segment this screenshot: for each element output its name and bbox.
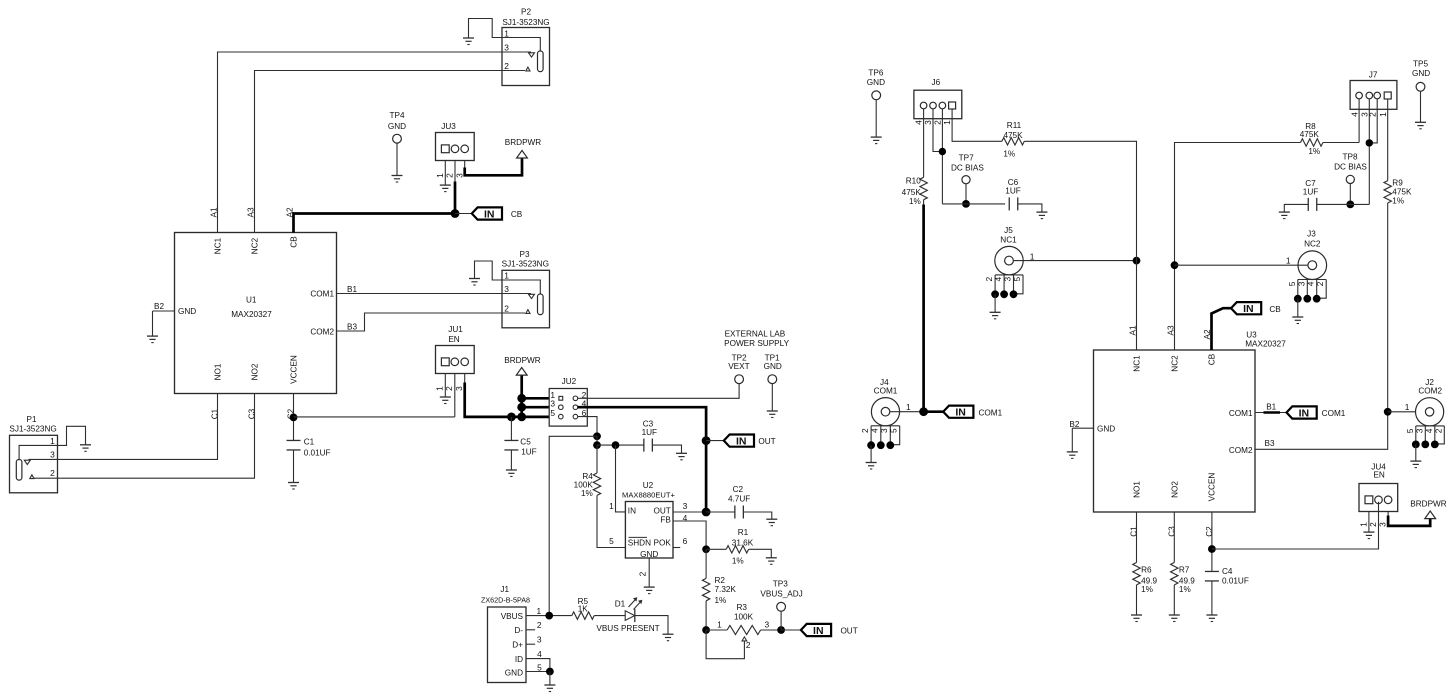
wire JU4 pin1 to ground bbox=[1368, 512, 1370, 533]
wire JU3 pin2 down (CB net) bbox=[454, 160, 456, 213]
svg-text:CB: CB bbox=[1269, 305, 1281, 314]
svg-text:100K: 100K bbox=[734, 612, 754, 621]
svg-text:C5: C5 bbox=[520, 438, 531, 447]
wire J2 node to pin1 bbox=[1388, 402, 1416, 412]
svg-text:SJ1-3523NG: SJ1-3523NG bbox=[9, 424, 56, 433]
svg-text:5: 5 bbox=[1012, 277, 1022, 282]
svg-text:B2: B2 bbox=[154, 302, 164, 311]
junction CB net bbox=[451, 209, 460, 218]
wire TP3 node to OUT flag bbox=[781, 629, 801, 631]
op-amp U1 MAX20327 analog switch box bbox=[175, 233, 337, 394]
svg-text:1%: 1% bbox=[581, 489, 593, 498]
U3 pin label A1 bbox=[1129, 325, 1138, 335]
resistor R7 49.9 bbox=[1171, 563, 1196, 594]
svg-text:3: 3 bbox=[879, 428, 889, 433]
ground at P2 bbox=[463, 38, 474, 45]
svg-text:VEXT: VEXT bbox=[728, 362, 749, 371]
ground at TP6 bbox=[871, 137, 882, 144]
wire P3 pin1 to ground bbox=[475, 261, 503, 280]
wire J3 pin1 to A3 column bbox=[1175, 255, 1308, 265]
wire U2 OUT to node bbox=[673, 511, 706, 513]
svg-text:1: 1 bbox=[435, 386, 445, 391]
svg-text:475K: 475K bbox=[902, 188, 922, 197]
wire D1 to ground bbox=[635, 616, 668, 635]
svg-text:B3: B3 bbox=[1264, 439, 1274, 448]
junction A1 J5 node bbox=[1133, 257, 1141, 265]
junction C4 node bbox=[1208, 545, 1216, 553]
svg-text:COM2: COM2 bbox=[310, 327, 334, 336]
U1 pin name NO2 bbox=[251, 363, 260, 380]
junction TP8 node bbox=[1346, 201, 1354, 209]
wire J7 pin2 to pin3 bbox=[1369, 99, 1377, 143]
ground at U3 B2 bbox=[1067, 452, 1078, 459]
U1 pin name VCCEN bbox=[290, 355, 299, 384]
connector J3 NC2 jack bbox=[1298, 230, 1327, 280]
junction R4 top bbox=[593, 441, 601, 449]
svg-text:C1: C1 bbox=[304, 437, 315, 446]
wire TP3 down bbox=[780, 611, 782, 630]
wire U1 C2 VCCEN down bbox=[293, 394, 295, 441]
P3 jack barrel bbox=[538, 294, 544, 315]
svg-text:MAX20327: MAX20327 bbox=[231, 310, 272, 319]
test point TP8 bbox=[1334, 153, 1367, 184]
U1 pin label A3 bbox=[247, 207, 256, 217]
svg-text:475K: 475K bbox=[1003, 131, 1023, 140]
connector J6 header bbox=[914, 78, 962, 119]
wire J6 pin2 col to C6 bbox=[942, 203, 1005, 205]
svg-text:C3: C3 bbox=[643, 419, 654, 428]
svg-text:IN: IN bbox=[1243, 303, 1254, 315]
P2 pin2 internal wire and contact bbox=[502, 67, 530, 71]
U3 pin name COM1 bbox=[1229, 409, 1253, 418]
wire U1 COM1 B1 to P3 pin3 bbox=[337, 293, 503, 295]
wire R7 to ground bbox=[1173, 585, 1175, 615]
svg-text:GND: GND bbox=[1412, 69, 1430, 78]
svg-text:4.7UF: 4.7UF bbox=[728, 495, 750, 504]
svg-text:3: 3 bbox=[454, 386, 464, 391]
U1 pin name GND bbox=[178, 307, 196, 316]
wire BRDPWR bus bbox=[520, 375, 523, 417]
svg-text:TP4: TP4 bbox=[389, 111, 404, 120]
svg-text:POK: POK bbox=[654, 538, 672, 547]
wire R10 down to J4 node bbox=[923, 200, 925, 412]
power symbol BRDPWR at JU3 bbox=[505, 138, 541, 158]
U3 pin name VCCEN bbox=[1208, 473, 1217, 502]
svg-text:COM1: COM1 bbox=[1322, 409, 1346, 418]
label EXTERNAL LAB POWER SUPPLY bbox=[724, 329, 789, 348]
svg-text:6: 6 bbox=[683, 536, 688, 546]
svg-text:B3: B3 bbox=[347, 323, 357, 332]
svg-text:CB: CB bbox=[511, 210, 523, 219]
svg-text:1: 1 bbox=[1405, 402, 1410, 412]
resistor R10 475K bbox=[902, 177, 928, 207]
svg-text:TP7: TP7 bbox=[959, 154, 974, 163]
svg-text:R11: R11 bbox=[1007, 121, 1022, 130]
svg-text:TP5: TP5 bbox=[1413, 60, 1428, 69]
svg-text:1UF: 1UF bbox=[642, 428, 657, 437]
J1 pin numbers bbox=[536, 606, 542, 673]
wire P1 pin1 to ground bbox=[58, 426, 86, 445]
svg-text:BRDPWR: BRDPWR bbox=[1410, 499, 1446, 508]
svg-text:2: 2 bbox=[445, 173, 455, 178]
ground at TP5 bbox=[1415, 122, 1426, 129]
capacitor C4 bbox=[1205, 567, 1249, 586]
ground at D1 bbox=[663, 634, 674, 641]
svg-text:R10: R10 bbox=[906, 177, 921, 186]
wire J4 pin1 to node bbox=[890, 402, 924, 412]
junction OUT flag tap bbox=[702, 436, 711, 445]
svg-text:1: 1 bbox=[609, 501, 614, 511]
wire CB net U1 A2 to JU3 bbox=[294, 214, 456, 233]
connector J2 COM2 jack bbox=[1416, 378, 1444, 426]
svg-text:1: 1 bbox=[1358, 522, 1368, 527]
svg-text:1: 1 bbox=[504, 271, 509, 281]
svg-text:3: 3 bbox=[1414, 428, 1424, 433]
svg-text:P3: P3 bbox=[519, 250, 529, 259]
svg-text:NC1: NC1 bbox=[1000, 236, 1017, 245]
wire U1 C3 to P1 pin2 bbox=[58, 394, 255, 479]
wire U1 COM2 B3 to P3 pin2 bbox=[337, 313, 503, 331]
wire U3 B2 to ground bbox=[1072, 428, 1093, 452]
ground at R6 bbox=[1131, 615, 1142, 622]
svg-text:475K: 475K bbox=[1300, 130, 1320, 139]
junction bus JU2 pin3 bbox=[517, 403, 526, 412]
svg-text:GND: GND bbox=[388, 122, 406, 131]
U3 pin label B1 bbox=[1266, 403, 1276, 412]
wire J2 shield to ground bbox=[1415, 444, 1417, 461]
svg-text:J6: J6 bbox=[931, 78, 940, 87]
svg-text:4: 4 bbox=[1424, 428, 1434, 433]
svg-text:FB: FB bbox=[660, 516, 671, 525]
resistor R11 475K bbox=[1002, 121, 1024, 159]
svg-text:R3: R3 bbox=[736, 603, 747, 612]
wire C7 to J7 pin3 col bbox=[1317, 203, 1370, 205]
resistor R2 7.32K bbox=[702, 549, 736, 630]
wire J6 pin3 to pin2 bbox=[933, 109, 942, 152]
svg-text:1%: 1% bbox=[1308, 147, 1320, 156]
wire bus to JU2 pin3 bbox=[522, 406, 550, 409]
wire C7 to ground bbox=[1284, 204, 1308, 212]
svg-text:2: 2 bbox=[504, 304, 509, 314]
P3 pin3 internal wire and contact bbox=[502, 294, 535, 299]
svg-text:VBUS_ADJ: VBUS_ADJ bbox=[760, 590, 802, 599]
svg-text:NO1: NO1 bbox=[214, 363, 223, 380]
U1 pin label A2 bbox=[286, 207, 295, 217]
wire TP7 down bbox=[965, 184, 967, 204]
wire TP1 to ground bbox=[771, 384, 773, 411]
svg-text:R1: R1 bbox=[738, 528, 749, 537]
svg-text:C4: C4 bbox=[1222, 567, 1233, 576]
svg-text:D-: D- bbox=[514, 626, 523, 635]
svg-text:IN: IN bbox=[1299, 407, 1310, 419]
U3 pin label A2 bbox=[1203, 329, 1212, 339]
J3 shield pins bbox=[1287, 280, 1326, 303]
capacitor C3 bbox=[642, 419, 657, 451]
svg-text:J7: J7 bbox=[1369, 71, 1378, 80]
wire TP8 down bbox=[1349, 184, 1351, 205]
ground at JU3 pin1 bbox=[440, 185, 451, 192]
test point TP1 bbox=[764, 354, 782, 384]
wire U3 NO1 to R6 bbox=[1136, 512, 1138, 563]
U1 pin label A1 bbox=[210, 207, 219, 217]
svg-text:CB: CB bbox=[290, 236, 299, 248]
wire JU1 pin3 down (BRDPWR net) bbox=[465, 373, 550, 417]
wire P2 pin1 to ground bbox=[469, 19, 503, 39]
svg-text:C3: C3 bbox=[1168, 526, 1177, 537]
junction J4 node bbox=[919, 407, 928, 416]
wire C3 to ground bbox=[652, 445, 681, 453]
connector J5 NC1 jack bbox=[995, 226, 1023, 275]
wire JU1 pin2 down bbox=[454, 373, 456, 417]
wire U3 A2 CB net bbox=[1212, 308, 1232, 350]
wire J6 pin1 to R11 bbox=[952, 109, 1002, 141]
U1 pin name NO1 bbox=[214, 363, 223, 380]
capacitor C1 bbox=[287, 437, 331, 457]
wire U3 B1 to flag bbox=[1255, 412, 1287, 414]
svg-text:EN: EN bbox=[448, 335, 459, 344]
wire C6 to ground bbox=[1018, 204, 1042, 212]
svg-text:4: 4 bbox=[1306, 281, 1316, 286]
svg-text:GND: GND bbox=[867, 78, 885, 87]
ground at J4 bbox=[866, 463, 877, 470]
svg-text:EN: EN bbox=[1373, 471, 1384, 480]
svg-text:CB: CB bbox=[1208, 353, 1217, 365]
U1 pin name COM1 bbox=[310, 290, 334, 299]
ground at C7 bbox=[1279, 212, 1290, 219]
svg-text:D+: D+ bbox=[512, 641, 523, 650]
U1 pin label C2 bbox=[287, 408, 296, 419]
svg-text:5: 5 bbox=[537, 662, 542, 672]
P1 pin3 internal wire and contact bbox=[24, 459, 57, 464]
svg-text:1: 1 bbox=[1030, 252, 1035, 262]
wire R11 to A1 column bbox=[1024, 141, 1136, 232]
svg-text:2: 2 bbox=[746, 640, 751, 650]
svg-text:C2: C2 bbox=[1205, 526, 1214, 537]
U1 pin name COM2 bbox=[310, 327, 334, 336]
svg-text:3: 3 bbox=[1378, 522, 1388, 527]
R3 wiper arrow bbox=[706, 630, 747, 659]
wire C4 to ground bbox=[1211, 581, 1213, 615]
svg-text:1UF: 1UF bbox=[1005, 186, 1020, 195]
svg-text:3: 3 bbox=[50, 450, 55, 460]
svg-text:1: 1 bbox=[906, 402, 911, 412]
svg-text:SJ1-3523NG: SJ1-3523NG bbox=[502, 18, 549, 27]
connector P1 SJ1-3523NG box bbox=[9, 415, 57, 493]
ground at J1 bbox=[544, 685, 555, 692]
wire J6 pin4 to R10 bbox=[923, 109, 925, 178]
op-amp U3 MAX20327 analog switch box bbox=[1094, 330, 1287, 512]
svg-text:C1: C1 bbox=[1130, 526, 1139, 537]
svg-text:SJ1-3523NG: SJ1-3523NG bbox=[502, 259, 549, 268]
wire C4 node to JU4 pin2 bbox=[1212, 502, 1379, 549]
svg-text:IN: IN bbox=[955, 407, 966, 419]
svg-text:5: 5 bbox=[1405, 428, 1415, 433]
svg-text:D1: D1 bbox=[615, 600, 626, 609]
svg-text:COM1: COM1 bbox=[310, 290, 334, 299]
capacitor C6 bbox=[1005, 178, 1020, 210]
flag IN CB right bbox=[1231, 302, 1281, 315]
svg-text:B2: B2 bbox=[1069, 420, 1079, 429]
svg-text:GND: GND bbox=[505, 668, 523, 677]
svg-text:C3: C3 bbox=[248, 408, 257, 419]
svg-text:NC2: NC2 bbox=[251, 237, 260, 254]
svg-text:IN: IN bbox=[736, 435, 747, 447]
ground at R7 bbox=[1169, 615, 1180, 622]
svg-text:3: 3 bbox=[537, 635, 542, 645]
svg-text:NC1: NC1 bbox=[1133, 355, 1142, 372]
svg-text:U2: U2 bbox=[643, 481, 654, 490]
connector P3 SJ1-3523NG box bbox=[502, 250, 550, 328]
ground at P1 bbox=[80, 445, 91, 452]
ground at R1 bbox=[766, 558, 777, 565]
svg-text:COM1: COM1 bbox=[978, 408, 1002, 417]
wire J4 node to flag bbox=[924, 410, 944, 413]
svg-text:GND: GND bbox=[1097, 425, 1115, 434]
svg-text:J3: J3 bbox=[1307, 230, 1316, 239]
svg-text:GND: GND bbox=[764, 362, 782, 371]
U3 pin label B2 bbox=[1069, 420, 1079, 429]
J2 shield pins bbox=[1405, 426, 1445, 448]
resistor R1 31.6K bbox=[706, 528, 771, 565]
svg-text:C2: C2 bbox=[733, 485, 744, 494]
wire J6 pin2 down to C6 row bbox=[941, 109, 943, 204]
svg-text:2: 2 bbox=[537, 620, 542, 630]
junction U2 IN tap bbox=[612, 441, 620, 449]
wire bus to JU2 pin1 bbox=[522, 397, 550, 400]
svg-text:TP3: TP3 bbox=[773, 579, 788, 588]
wire J4 shield to ground bbox=[870, 445, 872, 462]
P1 pin1 internal wire bbox=[19, 445, 57, 459]
jumper JU2 2x3 header bbox=[549, 377, 587, 426]
ground at J3 bbox=[1292, 317, 1303, 324]
svg-text:1%: 1% bbox=[1179, 585, 1191, 594]
wire U3 A3 to R8 bbox=[1175, 143, 1301, 351]
svg-text:U1: U1 bbox=[246, 295, 257, 304]
svg-text:GND: GND bbox=[178, 307, 196, 316]
svg-text:COM2: COM2 bbox=[1229, 446, 1253, 455]
svg-text:OUT: OUT bbox=[654, 507, 671, 516]
svg-text:1%: 1% bbox=[1392, 196, 1404, 205]
ground at C4 bbox=[1206, 615, 1217, 622]
svg-text:1: 1 bbox=[1378, 112, 1388, 117]
junction J7 pins 2-3 bbox=[1366, 139, 1373, 146]
U3 pin name NO1 bbox=[1133, 481, 1142, 498]
svg-text:1: 1 bbox=[504, 28, 509, 38]
wire U1 A1 to P2 pin3 bbox=[218, 52, 503, 233]
svg-text:1%: 1% bbox=[1141, 585, 1153, 594]
svg-text:JU3: JU3 bbox=[441, 122, 456, 131]
ground at P3 bbox=[469, 279, 480, 286]
svg-text:1%: 1% bbox=[1003, 150, 1015, 159]
svg-text:NO2: NO2 bbox=[251, 363, 260, 380]
wire node down bbox=[596, 436, 598, 445]
svg-text:NC1: NC1 bbox=[214, 237, 223, 254]
J5 shield pins bbox=[984, 275, 1023, 298]
svg-text:SHDN: SHDN bbox=[628, 538, 651, 547]
svg-text:4: 4 bbox=[537, 649, 542, 659]
U1 pin name CB bbox=[290, 236, 299, 248]
svg-text:P2: P2 bbox=[521, 8, 531, 17]
wire JU2 pin2 to TP2 bbox=[578, 384, 739, 399]
svg-text:MAX20327: MAX20327 bbox=[1245, 339, 1286, 348]
svg-text:EXTERNAL LAB: EXTERNAL LAB bbox=[725, 329, 786, 338]
ground at C6 bbox=[1036, 212, 1047, 219]
U1 pin label B2 bbox=[154, 302, 164, 311]
wire JU3 pin3 to BRDPWR bbox=[465, 158, 522, 175]
wire JU2 pin6 down to node bbox=[578, 417, 597, 437]
wire C1 to ground bbox=[293, 450, 295, 483]
svg-text:VBUS: VBUS bbox=[501, 612, 524, 621]
svg-text:R9: R9 bbox=[1392, 179, 1403, 188]
wire VCCEN to JU1 pin2 bbox=[294, 416, 455, 418]
junction C5 tap bbox=[507, 413, 516, 422]
connector J1 ZX62D-B-5PA8 USB box bbox=[481, 585, 530, 682]
svg-text:1: 1 bbox=[717, 619, 722, 629]
wire J1 ID to GND bbox=[526, 659, 550, 672]
flag IN OUT upper bbox=[724, 435, 776, 448]
test point TP6 bbox=[867, 68, 885, 99]
svg-text:1K: 1K bbox=[578, 605, 589, 614]
ground at C3 bbox=[676, 453, 687, 460]
ground at U1 B2 bbox=[147, 336, 158, 343]
wire J7 pin3 down to C7 row bbox=[1368, 99, 1370, 205]
power symbol BRDPWR at JU4 bbox=[1410, 499, 1446, 518]
wire C5 to ground bbox=[510, 450, 512, 470]
svg-text:J5: J5 bbox=[1004, 226, 1013, 235]
svg-text:2: 2 bbox=[1368, 522, 1378, 527]
junction pin6 node bbox=[593, 432, 601, 440]
U3 pin label C3 bbox=[1168, 526, 1177, 537]
svg-text:1UF: 1UF bbox=[521, 448, 536, 457]
wire J5 shield to ground bbox=[994, 294, 996, 312]
svg-text:IN: IN bbox=[813, 625, 824, 637]
svg-text:P1: P1 bbox=[26, 415, 36, 424]
P1 pin2 internal wire and contact bbox=[30, 475, 58, 479]
wire R5 to D1 bbox=[594, 615, 625, 617]
svg-text:0.01UF: 0.01UF bbox=[1222, 577, 1249, 586]
wire JU4 pin3 to BRDPWR bbox=[1388, 511, 1430, 526]
svg-text:ID: ID bbox=[515, 655, 523, 664]
svg-text:1: 1 bbox=[536, 606, 541, 616]
P1 jack barrel bbox=[16, 460, 22, 481]
junction TP7 node bbox=[962, 200, 970, 208]
svg-text:5: 5 bbox=[609, 536, 614, 546]
resistor R6 49.9 bbox=[1133, 563, 1158, 594]
svg-text:1%: 1% bbox=[732, 557, 744, 566]
wire U2 FB down to R1 node bbox=[673, 521, 706, 549]
svg-text:1: 1 bbox=[942, 120, 952, 125]
U1 pin label B3 bbox=[347, 323, 357, 332]
wire R8 to J7 pin4 bbox=[1323, 142, 1359, 144]
junction FB R1 R2 node bbox=[702, 545, 710, 553]
U3 pin name NO2 bbox=[1171, 481, 1180, 498]
U3 pin name NC2 bbox=[1171, 355, 1180, 372]
svg-text:4: 4 bbox=[1349, 112, 1359, 117]
connector J7 header bbox=[1350, 71, 1397, 110]
ground at C5 bbox=[506, 470, 517, 477]
svg-text:2: 2 bbox=[1315, 281, 1325, 286]
svg-text:ZX62D-B-5PA8: ZX62D-B-5PA8 bbox=[481, 595, 530, 604]
svg-text:IN: IN bbox=[484, 208, 495, 220]
wire TP5 to ground bbox=[1420, 91, 1422, 122]
test point TP5 bbox=[1412, 60, 1430, 92]
svg-text:7.32K: 7.32K bbox=[715, 585, 737, 594]
resistor R5 1K bbox=[572, 597, 594, 619]
wire TP6 to ground bbox=[875, 100, 877, 137]
test point TP3 bbox=[760, 579, 802, 611]
junction U2 OUT node bbox=[702, 508, 711, 517]
jumper JU3 box bbox=[436, 122, 475, 161]
